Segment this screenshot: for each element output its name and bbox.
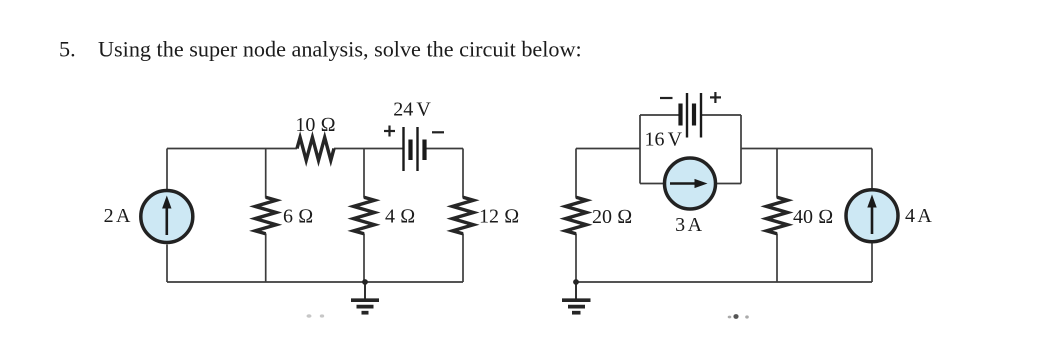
- svg-text:10 Ω: 10 Ω: [295, 114, 335, 136]
- svg-text:4 A: 4 A: [905, 205, 932, 227]
- svg-text:2 A: 2 A: [104, 205, 131, 227]
- svg-text:24 V: 24 V: [393, 99, 431, 121]
- svg-text:5.: 5.: [59, 37, 76, 62]
- svg-text:16 V: 16 V: [645, 129, 683, 151]
- svg-text:20 Ω: 20 Ω: [592, 206, 632, 228]
- svg-text:Using the super node analysis,: Using the super node analysis, solve the…: [98, 37, 582, 62]
- svg-text:3 A: 3 A: [675, 214, 702, 236]
- svg-text:12 Ω: 12 Ω: [479, 206, 519, 228]
- svg-text:6 Ω: 6 Ω: [283, 206, 313, 228]
- svg-text:40 Ω: 40 Ω: [793, 206, 833, 228]
- svg-text:4 Ω: 4 Ω: [385, 206, 415, 228]
